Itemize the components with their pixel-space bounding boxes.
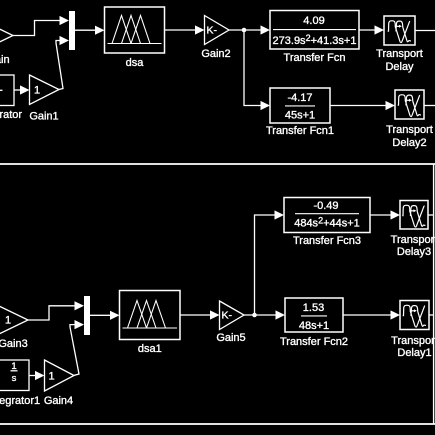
wire Gain3 to Mux1 input 1 (28, 301, 84, 320)
wire dsa1 to Gain5 (180, 310, 220, 319)
block Transfer Fcn2 (280, 298, 348, 348)
svg-text:Delay2: Delay2 (392, 137, 426, 149)
window border separator top (0, 163, 435, 165)
svg-text:Delay1: Delay1 (397, 347, 431, 359)
gain Gain (clipped at left edge) (0, 21, 13, 66)
block Transfer Fcn (270, 11, 359, 65)
svg-text:K-: K- (207, 25, 218, 37)
wire Transport Delay2 output (424, 105, 435, 107)
svg-text:Gain3: Gain3 (0, 338, 28, 350)
svg-text:Transport: Transport (391, 335, 435, 347)
wire Gain5 to Transfer Fcn2 (244, 310, 285, 319)
gain Gain5 (216, 301, 245, 344)
integrator Integrator1 (clipped at left edge) (0, 360, 40, 407)
svg-text:Delay: Delay (385, 61, 414, 73)
gain Gain4 (44, 360, 74, 407)
svg-text:s: s (12, 373, 17, 384)
block Transport Delay3 (391, 201, 435, 259)
svg-text:Transport: Transport (376, 48, 423, 60)
wire Integrator to Gain1 (14, 85, 30, 94)
svg-text:45s+1: 45s+1 (285, 110, 315, 122)
svg-text:Transport: Transport (391, 234, 435, 246)
mux Mux1 (84, 296, 90, 335)
svg-text:Transfer Fcn1: Transfer Fcn1 (266, 125, 334, 137)
wire Transport Delay3 output (428, 214, 434, 216)
svg-text:Gain5: Gain5 (216, 332, 245, 344)
svg-text:273.9s2+41.3s+1: 273.9s2+41.3s+1 (273, 33, 357, 47)
wire Transport Delay output (415, 30, 435, 32)
svg-text:Gain4: Gain4 (44, 395, 73, 407)
wire Mux1 to dsa1 (90, 311, 120, 320)
wire Gain2 to Transfer Fcn (229, 25, 270, 34)
svg-text:dsa: dsa (126, 57, 145, 69)
svg-text:1: 1 (49, 370, 55, 382)
svg-text:Gain: Gain (0, 54, 10, 66)
svg-text:1: 1 (5, 314, 11, 326)
block dsa1 (fuzzy logic controller) (120, 291, 181, 356)
wire Gain1 to Mux input 2 (diagonal) (56, 36, 69, 90)
node branch junction after Gain2 (242, 28, 247, 33)
svg-text:Gain2: Gain2 (201, 48, 230, 60)
svg-text:4.09: 4.09 (303, 15, 324, 27)
block Transport Delay (376, 16, 423, 73)
svg-text:Integrator: Integrator (0, 109, 22, 121)
svg-text:Transfer Fcn3: Transfer Fcn3 (293, 235, 361, 247)
wire Transport Delay1 output (429, 314, 434, 316)
svg-text:Transfer Fcn: Transfer Fcn (284, 52, 346, 64)
block Transport Delay2 (386, 90, 433, 149)
node branch junction after Gain5 (252, 313, 257, 318)
block dsa (fuzzy logic controller) (105, 7, 165, 69)
window border separator bottom (0, 423, 435, 425)
svg-text:Transport: Transport (386, 124, 433, 136)
wire Integrator1 to Gain4 (29, 371, 45, 380)
svg-text:484s2+44s+1: 484s2+44s+1 (294, 216, 360, 230)
mux Mux (69, 11, 75, 50)
gain Gain2 (201, 16, 230, 61)
wire Transfer Fcn2 to Transport Delay1 (343, 310, 400, 319)
wire dsa to Gain2 (165, 25, 205, 34)
wire Transfer Fcn to Transport Delay (359, 25, 384, 34)
wire Mux to dsa (75, 26, 105, 35)
gain Gain1 (29, 75, 59, 123)
svg-text:-4.17: -4.17 (287, 92, 312, 104)
svg-text:Gain1: Gain1 (29, 111, 58, 123)
svg-text:48s+1: 48s+1 (299, 320, 329, 332)
block Transfer Fcn3 (284, 198, 370, 248)
wire Transfer Fcn3 to Transport Delay3 (370, 210, 400, 219)
wire Transfer Fcn1 to Transport Delay2 (330, 101, 395, 110)
wire Gain to Mux input 1 (13, 16, 69, 36)
window border right edge (433, 164, 435, 424)
block Transfer Fcn1 (266, 88, 334, 137)
svg-text:Delay3: Delay3 (397, 246, 431, 258)
block Transport Delay1 (391, 301, 435, 360)
wire branch up to Transfer Fcn3 (255, 210, 285, 315)
svg-text:-0.49: -0.49 (313, 200, 338, 212)
svg-text:K-: K- (222, 310, 233, 322)
svg-text:dsa1: dsa1 (138, 343, 162, 355)
gain Gain3 (clipped at left edge) (0, 306, 28, 351)
svg-text:1.53: 1.53 (303, 302, 324, 314)
wire Gain4 to Mux1 input 2 (diagonal) (70, 320, 84, 375)
svg-text:Integrator1: Integrator1 (0, 395, 40, 407)
svg-text:Transfer Fcn2: Transfer Fcn2 (280, 336, 348, 348)
svg-text:1: 1 (34, 85, 40, 97)
wire branch down to Transfer Fcn1 (244, 30, 270, 110)
integrator Integrator (clipped at left edge) (0, 75, 22, 121)
